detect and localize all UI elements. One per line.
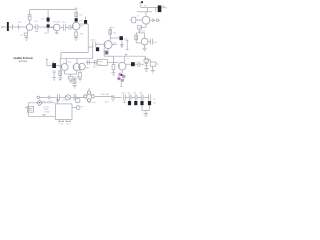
loop top wire: [28, 102, 55, 104]
resistor R4 marks: [47, 22, 49, 25]
capacitor C19: [122, 93, 130, 103]
emitter network R3: [20, 30, 28, 36]
wire below bias chain: [44, 28, 48, 35]
transistor Q7: [73, 64, 80, 71]
center text block: [43, 107, 50, 114]
base rail wire: [137, 11, 152, 13]
emitter Q2 marks: [55, 31, 59, 34]
svg-text:1N: 1N: [133, 93, 136, 95]
rail drops: [67, 58, 78, 63]
diode D6 (dark) with plate ticks: [148, 94, 151, 110]
ground G4: [52, 78, 56, 81]
resistor R18 vertical with ground: [111, 62, 115, 75]
IC box U1: [55, 104, 72, 120]
resistor R5 plate marks: [69, 25, 73, 30]
ground G2: [74, 38, 78, 41]
diode D3 (dark) with plate ticks: [127, 93, 135, 106]
small component box right: [150, 62, 159, 73]
junction tick at rail corner: [75, 7, 78, 9]
capacitor C2 marks: [28, 14, 32, 16]
wire: [107, 61, 118, 63]
svg-text:1N: 1N: [127, 93, 130, 95]
capacitor C1 (polarized, dark plate): [7, 22, 17, 31]
emitter Q3 resistor R7: [75, 30, 84, 38]
capacitor C3: [33, 21, 42, 31]
input terminal J1: [2, 26, 7, 28]
collector chain up, resistor R8: [108, 27, 117, 42]
ground G1: [25, 36, 29, 41]
transistor Q8: [79, 63, 86, 70]
emitter join of Q6/Q7: [65, 71, 77, 77]
svg-text:SM 2000: SM 2000: [19, 61, 28, 63]
capacitor C18: [71, 94, 85, 100]
loop bottom wire: [28, 115, 55, 117]
capacitor C13 below C12: [52, 71, 55, 78]
resistor R6: [75, 13, 84, 17]
resistor R17 below Q8: [78, 70, 82, 81]
transformer T1 top wire: [141, 7, 158, 9]
loop right branch: [144, 33, 146, 38]
resistor R10 vertical with end ticks: [126, 40, 129, 50]
capacitor C12 (dark): [47, 61, 61, 68]
rail drop to R14 chain: [59, 58, 61, 70]
svg-text:50Hz: 50Hz: [44, 112, 49, 114]
capacitor C4 (dark polarized): [41, 18, 50, 22]
junction marks: [105, 95, 122, 104]
wire: [42, 26, 45, 28]
resistor R1 vertical plate marks: [17, 22, 24, 30]
capacitor C15: [93, 60, 97, 68]
diode D4 (dark) with plate ticks: [133, 93, 141, 106]
wire: [96, 43, 104, 45]
transistor Q4: [104, 41, 112, 49]
transistor Q3: [72, 22, 80, 30]
diode D1 (dark) to side: [110, 36, 128, 40]
IC right side wiring: [72, 106, 85, 110]
capacitor C7 (dark polarized): [75, 18, 84, 22]
svg-text:Amplifier Kit Circuit: Amplifier Kit Circuit: [13, 56, 32, 60]
svg-text:prim: prim: [63, 99, 67, 102]
pot VR1 (circle): [136, 38, 148, 45]
resistor R16 chain right: [73, 78, 77, 88]
labels near diodes: [153, 99, 157, 105]
capacitor C9: [91, 39, 96, 47]
svg-text:12-0: 12-0: [66, 124, 71, 126]
wire mid row: [85, 61, 97, 63]
input terminal J2: [37, 96, 48, 99]
wire jog down to mid-section loop: [88, 45, 93, 59]
svg-text:volume: volume: [138, 31, 146, 33]
svg-text:on/off: on/off: [47, 101, 53, 103]
battery BT1: [25, 106, 33, 112]
diode D5 (dark) with plate ticks: [139, 93, 148, 111]
+V rail (top): [30, 9, 77, 11]
switch S1 on bottom wire: [43, 114, 46, 116]
loop left wire: [27, 103, 29, 117]
ground G3: [142, 45, 147, 51]
svg-text:0-12: 0-12: [59, 124, 64, 126]
component marks on wire: [42, 96, 58, 103]
resistor R2 vertical: [28, 16, 31, 24]
loop left branch resistor R11: [135, 33, 138, 43]
purple mark P1: [105, 50, 109, 54]
upper link wire of mid loop: [61, 53, 88, 59]
resistor R15: [68, 76, 78, 79]
ground G7: [144, 69, 148, 72]
transistor Q9: [118, 62, 126, 70]
emitter arrow marks and output terminal: [150, 19, 160, 22]
base feedback marks: [112, 43, 117, 45]
trimmer VR2: [144, 58, 149, 68]
stub below purple cluster: [120, 82, 122, 86]
transistor Q6: [61, 64, 68, 71]
ground G6: [69, 80, 73, 83]
svg-text:220V AC: 220V AC: [101, 93, 110, 96]
Q5 emitter down, resistor R13: [138, 24, 146, 33]
wire: [45, 27, 53, 29]
capacitor C17: [58, 94, 66, 102]
label box B2 with text: [97, 59, 107, 66]
drop to Q9: [124, 56, 126, 62]
capacitor C11: [148, 39, 158, 45]
diode D2 (dark): [126, 62, 138, 66]
long mid wire with step to component box: [114, 56, 151, 62]
wire with label: [95, 93, 113, 96]
IC bottom pins and parts: [58, 120, 71, 126]
+9V supply terminal: [139, 1, 147, 7]
junction tick and label: [125, 54, 130, 60]
Q9 emitter down: [121, 70, 123, 73]
svg-text:8R: 8R: [162, 6, 165, 8]
purple cluster P2: [117, 73, 126, 83]
resistor R9 vertical: [120, 41, 123, 48]
drop from long wire: [113, 56, 115, 62]
input corner wire: [46, 59, 48, 65]
emitter Q4 wire corner down: [104, 48, 114, 57]
join wire and ground G8: [142, 111, 150, 117]
capacitor C6: [60, 22, 69, 31]
transformer T1 body: [147, 8, 155, 12]
meter M1 (diamond): [37, 100, 42, 106]
speaker SP1 (dark bar): [158, 5, 162, 12]
capacitor C10 (dark polarized): [96, 47, 99, 51]
resistor R12 box (left of Q5): [130, 16, 143, 23]
wire to next stage: [80, 24, 89, 47]
rail corner drop to Q3: [75, 10, 77, 23]
capacitor C14: [86, 60, 90, 69]
trimmer VR3: [65, 95, 70, 100]
resistor R14 vertical: [59, 70, 62, 78]
wire rail drop to R2: [29, 10, 31, 14]
rail (middle section): [60, 57, 92, 59]
bias chain drop from rail: [47, 10, 49, 18]
transistor Q1: [23, 24, 33, 31]
transistor Q2: [53, 22, 60, 31]
capacitor C16: [138, 62, 144, 67]
pin stub top with capacitor C22: [56, 97, 59, 104]
svg-text:BC148: BC148: [53, 22, 60, 24]
transistor Q10 above IC right: [74, 97, 81, 102]
collector coupling, capacitor C8 (dark): [80, 16, 88, 27]
wire from speaker: [161, 6, 166, 8]
svg-text:1N: 1N: [139, 93, 142, 95]
capacitor C5 (dark polarized): [47, 24, 55, 28]
node wire corner above purple mark: [107, 49, 109, 51]
loop top wire: [136, 32, 144, 34]
bridge rectifier BR1 (diamond of 4 circles): [84, 88, 95, 102]
transistor Q5: [142, 16, 150, 24]
svg-text:sec 12V: sec 12V: [88, 102, 96, 104]
ground G5: [58, 78, 62, 81]
drop to Q5: [145, 12, 147, 16]
